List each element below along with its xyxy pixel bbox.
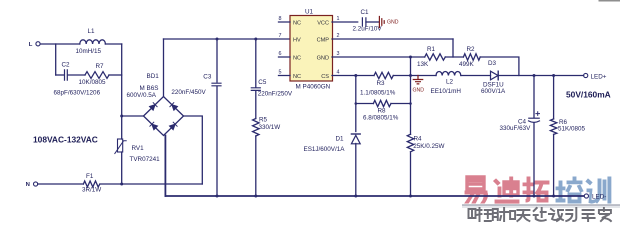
wire U1 pin 4 (CS) line to R3 xyxy=(332,75,374,77)
svg-text:51K/0805: 51K/0805 xyxy=(558,126,585,133)
svg-text:13K: 13K xyxy=(417,61,429,68)
svg-text:LED+: LED+ xyxy=(591,73,607,80)
wire R5 to bottom rail xyxy=(255,136,257,196)
wire U1 left pin stubs (pins 8,6,5) xyxy=(279,22,291,76)
svg-text:RV1: RV1 xyxy=(132,145,145,152)
svg-text:600V/1A: 600V/1A xyxy=(481,88,506,95)
resistor R7 xyxy=(85,72,109,79)
svg-text:M P4060GN: M P4060GN xyxy=(296,83,331,90)
svg-text:NC: NC xyxy=(293,74,301,80)
svg-text:VCC: VCC xyxy=(317,20,329,26)
resistor R2 xyxy=(463,54,480,60)
svg-text:C3: C3 xyxy=(203,73,212,80)
wire U1 pin 2 (CMP) line xyxy=(332,38,453,40)
wire R2 right down to output line xyxy=(480,57,519,76)
svg-text:D1: D1 xyxy=(336,136,345,143)
wire R4 to bottom rail xyxy=(410,152,412,196)
svg-text:3: 3 xyxy=(337,51,340,57)
svg-text:D3: D3 xyxy=(488,60,497,67)
terminal N xyxy=(34,182,38,186)
wire right node vertical xyxy=(121,44,123,116)
wire pin2 to R1R2 node xyxy=(452,39,454,57)
svg-text:220nF/450V: 220nF/450V xyxy=(171,89,206,96)
svg-text:M B6S: M B6S xyxy=(140,85,159,92)
wire U1 pin 1 to C1 xyxy=(332,21,358,23)
svg-text:EE10/1mH: EE10/1mH xyxy=(431,88,462,95)
svg-text:R1: R1 xyxy=(427,46,436,53)
svg-text:GND: GND xyxy=(387,19,399,25)
svg-text:L2: L2 xyxy=(446,78,454,85)
svg-text:220nF/250V: 220nF/250V xyxy=(258,90,293,97)
resistor R4 xyxy=(407,134,413,151)
svg-text:BD1: BD1 xyxy=(147,73,160,80)
svg-text:TVR07241: TVR07241 xyxy=(130,156,161,163)
resistor R5 xyxy=(253,119,259,136)
watermark line 2: 射频和天线设计专家 xyxy=(469,208,611,221)
wire bridge top to rail xyxy=(163,39,165,97)
resistor R8 xyxy=(356,100,411,106)
watermark underline xyxy=(462,204,620,207)
svg-text:3R/1W: 3R/1W xyxy=(82,187,101,194)
page artifact top-right gray bar xyxy=(599,0,620,2)
char 训 xyxy=(586,177,611,203)
wire D3 to LED+ xyxy=(498,75,583,77)
svg-text:GND: GND xyxy=(413,87,425,93)
svg-text:6.8/0805/1%: 6.8/0805/1% xyxy=(363,115,399,122)
ground (C1, red) xyxy=(379,17,384,28)
capacitor C4 xyxy=(529,76,540,197)
wire left node vertical xyxy=(55,44,57,75)
svg-text:R3: R3 xyxy=(377,80,386,87)
svg-text:1.1/0805/1%: 1.1/0805/1% xyxy=(360,90,396,97)
wire D1 to bottom rail xyxy=(355,144,357,197)
resistor R1 xyxy=(425,54,446,60)
svg-text:R2: R2 xyxy=(467,46,476,53)
char 易 xyxy=(465,177,488,203)
wire bridge bottom vertical xyxy=(164,136,166,197)
svg-text:N: N xyxy=(26,182,30,188)
svg-text:NC: NC xyxy=(293,20,301,26)
terminal LED- xyxy=(584,194,588,198)
terminal L xyxy=(36,42,40,46)
char 拓 xyxy=(523,177,549,202)
svg-text:F1: F1 xyxy=(86,173,94,180)
svg-text:6: 6 xyxy=(279,51,282,57)
svg-text:L: L xyxy=(29,42,33,48)
wire C2R7 branch right xyxy=(109,74,122,76)
inductor L1 xyxy=(80,40,106,44)
svg-text:2: 2 xyxy=(337,33,340,39)
varistor RV1 xyxy=(115,116,126,184)
char 迪 xyxy=(494,177,519,203)
svg-text:50V/160mA: 50V/160mA xyxy=(566,90,611,100)
wire bottom rail xyxy=(165,195,584,197)
wire L2 to D3 xyxy=(461,75,491,77)
svg-text:ES1J/600V/1A: ES1J/600V/1A xyxy=(304,146,346,153)
svg-text:10K/0805: 10K/0805 xyxy=(79,79,106,86)
wire to bridge left corner xyxy=(122,115,144,117)
svg-text:330uF/63V: 330uF/63V xyxy=(500,125,532,132)
wire U1 pin 3 (GND) line to R1 xyxy=(332,56,425,58)
ground (CS node, red) xyxy=(413,76,422,84)
diode D1 xyxy=(351,134,360,144)
svg-text:499K: 499K xyxy=(459,61,475,68)
capacitor C3 xyxy=(212,39,221,196)
wire R1 to R2 xyxy=(445,56,463,58)
wire CS line through to L2 xyxy=(393,75,436,77)
diode D3 xyxy=(491,71,499,80)
svg-text:68pF/630V/1206: 68pF/630V/1206 xyxy=(54,90,101,97)
svg-text:600V/0.5A: 600V/0.5A xyxy=(127,92,157,99)
wire N to bridge right corner xyxy=(184,116,203,184)
wire top rail xyxy=(164,38,291,40)
inductor L2 xyxy=(436,71,461,75)
wire N rail right xyxy=(101,183,203,185)
wire N rail left xyxy=(38,183,84,185)
resistor R6 xyxy=(550,76,556,197)
svg-text:C1: C1 xyxy=(361,9,370,16)
svg-text:8: 8 xyxy=(279,16,282,22)
fuse F1 xyxy=(83,181,99,187)
svg-text:U1: U1 xyxy=(305,8,314,15)
wire C2R7 branch left xyxy=(56,74,64,76)
svg-text:LED-: LED- xyxy=(592,193,606,200)
svg-text:C5: C5 xyxy=(258,79,267,86)
svg-text:7: 7 xyxy=(279,33,282,39)
svg-text:NC: NC xyxy=(293,55,301,61)
wire R1 node down to CS line xyxy=(410,57,412,76)
svg-text:108VAC-132VAC: 108VAC-132VAC xyxy=(33,135,98,145)
capacitor C5 xyxy=(251,39,260,119)
svg-text:R5: R5 xyxy=(259,117,268,124)
svg-text:1: 1 xyxy=(337,16,340,22)
capacitor C2 xyxy=(65,70,86,80)
svg-text:C2: C2 xyxy=(62,62,71,69)
terminal LED+ xyxy=(584,73,588,77)
svg-text:CMP: CMP xyxy=(317,37,330,43)
svg-text:2.2uF/10V: 2.2uF/10V xyxy=(353,26,383,33)
svg-text:4: 4 xyxy=(337,70,340,76)
wire L rail xyxy=(40,43,122,45)
resistor R3 xyxy=(374,72,393,78)
wire D1 branch upper xyxy=(355,76,357,132)
watermark line 1: 易迪拓培训 xyxy=(465,177,611,203)
svg-text:CS: CS xyxy=(321,74,329,80)
svg-text:330/1W: 330/1W xyxy=(259,124,281,131)
wire R3R8 node down xyxy=(410,76,412,135)
svg-text:HV: HV xyxy=(293,37,301,43)
svg-text:5: 5 xyxy=(279,70,282,76)
svg-text:R8: R8 xyxy=(378,108,387,115)
IC U1 MP4060GN body xyxy=(290,16,333,82)
svg-text:R7: R7 xyxy=(96,63,105,70)
svg-text:R4: R4 xyxy=(414,136,423,143)
char 培 xyxy=(556,177,583,203)
svg-text:L1: L1 xyxy=(88,28,96,35)
svg-text:GND: GND xyxy=(317,55,329,61)
svg-text:25K/0.25W: 25K/0.25W xyxy=(413,143,444,150)
capacitor C1 xyxy=(362,18,378,26)
bridge BD1 xyxy=(144,97,184,136)
svg-text:10mH/15: 10mH/15 xyxy=(76,48,102,55)
